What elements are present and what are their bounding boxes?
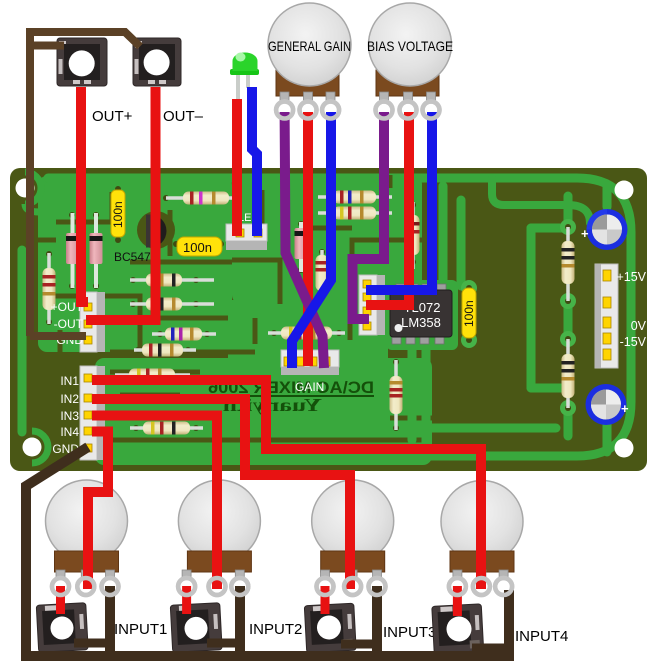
capacitor C2 100n horizontal — [177, 237, 222, 256]
electrolytic capacitor C4 blue top — [581, 209, 628, 250]
svg-text:OUT–: OUT– — [163, 108, 204, 125]
copper patch mid-top — [232, 175, 422, 304]
svg-text:INPUT4: INPUT4 — [515, 628, 568, 645]
wire brown inner to OUT+ — [33, 42, 64, 50]
wire red LED anode — [232, 99, 242, 236]
wire trace inner top right — [492, 178, 590, 223]
connector J-IN (IN1..IN4,GND) — [80, 366, 105, 460]
wire trace cap C4 stub up — [603, 186, 612, 207]
wire red IN4 to pot input1 — [88, 432, 108, 590]
resistor R9 under IN1 — [115, 369, 190, 382]
mounting hole top-left — [16, 179, 35, 198]
wire trace IC pin down 1 — [408, 346, 417, 440]
PCB board — [10, 168, 647, 471]
diode D1 pink — [66, 213, 79, 288]
wire trace power loop vertical — [527, 228, 536, 388]
wire red pot VR1 wiper to GAIN — [303, 112, 313, 366]
jack INPUT2 J4 — [170, 603, 222, 653]
wire blue pot VR1 right to GAIN pin1 — [292, 112, 331, 368]
pad hole dots on patches — [46, 186, 416, 431]
resistor R10 under IN4 — [130, 422, 203, 435]
silk mirrored signature — [223, 395, 322, 415]
wire purple pot VR1 left to GAIN pin4 — [285, 112, 324, 368]
svg-text:IN4: IN4 — [60, 425, 79, 439]
svg-text:-15V: -15V — [620, 335, 647, 349]
groove lines on mid-top patch — [232, 175, 422, 304]
svg-text:BIAS VOLTAGE: BIAS VOLTAGE — [367, 38, 453, 54]
mounting hole top-right — [615, 181, 634, 200]
potentiometer VR2 BIAS VOLTAGE — [369, 3, 452, 119]
wire blue LED cathode — [252, 87, 257, 236]
mounting hole bottom-left — [23, 438, 42, 457]
copper patch gain riser — [228, 300, 388, 370]
resistor R1 — [130, 274, 214, 287]
resistor R7 — [318, 207, 392, 220]
resistor R8 gain — [268, 327, 345, 340]
wire brown jack2 stub — [207, 639, 240, 648]
wire trace second bottom — [112, 424, 556, 433]
svg-text:100n: 100n — [183, 240, 212, 255]
resistor R12 vertical mid — [407, 202, 420, 269]
wire red pot2 left ring to jack2 — [182, 586, 191, 614]
wire trace IC pin down 2 — [422, 346, 431, 457]
connector J-PWR — [595, 264, 618, 368]
copper patch mid-bottom — [95, 358, 432, 465]
wire trace power loop horiz bottom — [531, 384, 568, 393]
dark blob under transistor — [137, 211, 175, 249]
wire red pot1 left ring to jack1 — [56, 586, 65, 614]
wire trace cap3 stub — [457, 200, 466, 286]
resistor R6 — [318, 191, 392, 204]
wire trace R11-R12 link — [564, 300, 573, 340]
resistor R16 vertical center — [316, 250, 329, 298]
jack INPUT4 J6 — [432, 604, 484, 654]
jack INPUT3 J5 — [304, 603, 356, 653]
wire trace arc around bottom-left hole — [32, 431, 48, 463]
wire trace cap C5 stub down — [603, 424, 612, 452]
potentiometer VR3 input1 — [46, 480, 128, 595]
ring re-strokes — [52, 102, 512, 596]
wire red IN1 to pot input4 — [92, 380, 481, 589]
resistor R2 — [130, 298, 214, 311]
svg-text:+: + — [621, 401, 629, 416]
copper patch left — [38, 176, 232, 352]
svg-text:BC547: BC547 — [114, 250, 151, 264]
wire red IN2 to pot input3 — [92, 399, 350, 589]
wire brown jack3 stub — [341, 640, 377, 649]
electrolytic capacitor C5 blue bottom — [586, 384, 630, 425]
svg-text:IN2: IN2 — [60, 392, 79, 406]
copper pad field under IC — [386, 280, 458, 350]
wire trace arc around top-left hole — [25, 172, 41, 204]
wire red pot4 left ring to jack4 — [453, 586, 462, 616]
svg-text:-OUT: -OUT — [54, 317, 84, 331]
resistor R4 — [134, 344, 196, 357]
wire trace R12 down — [564, 406, 573, 436]
wire red pot VR2 wiper to IC conn — [366, 112, 409, 305]
capacitor C3 100n vertical right — [462, 288, 476, 338]
connector J-IC (4 pin) — [359, 275, 385, 335]
wire trace power loop horiz top — [531, 224, 568, 233]
potentiometer VR4 input2 — [178, 480, 260, 595]
svg-text:100n: 100n — [111, 201, 125, 228]
svg-text:+15V: +15V — [616, 270, 646, 284]
wire brown jack4 stub — [472, 644, 509, 653]
jack OUT- J2 — [133, 38, 181, 86]
wire red pot3 left ring to jack3 — [321, 586, 330, 614]
wire brown pot3 right ring down — [372, 586, 382, 656]
resistor R3 — [152, 328, 216, 341]
groove lines on left patch — [38, 192, 232, 352]
wire brown jack1 stub — [74, 639, 110, 648]
transistor Q1 BC547 — [134, 215, 167, 248]
jack OUT+ J1 — [57, 38, 107, 86]
svg-text:100n: 100n — [462, 300, 476, 327]
svg-text:OUT+: OUT+ — [92, 108, 133, 125]
IC U1 TL072/LM358 — [390, 284, 452, 344]
resistor R11 vertical left — [43, 253, 56, 324]
svg-text:IN1: IN1 — [60, 374, 79, 388]
potentiometer VR5 input3 — [312, 480, 394, 595]
svg-text:INPUT2: INPUT2 — [249, 621, 302, 638]
connector J-OUT (+OUT/-OUT/GND) — [80, 292, 105, 352]
mounting hole bottom-right — [615, 439, 634, 458]
wire blue pot VR2 right to IC conn — [366, 112, 432, 290]
resistor R14 vertical right top — [562, 227, 575, 301]
wire brown pot1 right ring down — [105, 586, 115, 656]
connector J-GAIN — [281, 350, 339, 375]
resistor R15 vertical right bottom — [562, 339, 575, 408]
connector J-LED — [226, 224, 267, 250]
wire trace top bus — [48, 178, 631, 456]
groove lines on bottom patch — [108, 304, 432, 440]
wire purple pot VR2 left to IC conn — [353, 112, 385, 319]
silk mirrored title DC/AC MIXER 2006 — [208, 378, 374, 397]
wire red OUT+ jack to +OUT — [81, 87, 88, 302]
wire trace bottom-left hole stub — [18, 250, 27, 432]
wire brown ground bus bottom — [26, 447, 509, 656]
svg-text:INPUT1: INPUT1 — [114, 621, 167, 638]
svg-text:IN3: IN3 — [60, 409, 79, 423]
wire red IN3 to pot input2 — [92, 416, 217, 590]
pads right area — [461, 219, 576, 416]
silk title underline — [208, 395, 374, 397]
svg-text:0V: 0V — [631, 319, 647, 333]
svg-text:GENERAL GAIN: GENERAL GAIN — [268, 38, 351, 54]
wire trace R11 up — [564, 196, 573, 225]
capacitor C1 100n vertical — [111, 190, 125, 237]
resistor R5 top-left — [166, 192, 236, 205]
resistor R13 vertical below IC — [390, 360, 403, 430]
wire red OUT- jack to -OUT — [86, 87, 156, 320]
diode D3 pink center — [295, 222, 308, 272]
potentiometer VR1 GENERAL GAIN — [268, 3, 351, 119]
svg-text:INPUT3: INPUT3 — [383, 624, 436, 641]
diode D2 pink — [90, 213, 103, 288]
wire brown pot2 right ring down — [235, 586, 245, 656]
jack INPUT1 J3 — [36, 603, 88, 653]
wire brown GND stub into connector — [30, 332, 86, 340]
svg-text:+: + — [581, 226, 589, 241]
potentiometer VR6 input4 — [441, 481, 523, 596]
svg-text:LM358: LM358 — [401, 315, 441, 330]
wire trace IC top right — [439, 186, 448, 282]
wire brown outer to OUT- — [30, 32, 140, 336]
LED D4 — [230, 53, 259, 102]
svg-text:GAIN: GAIN — [295, 380, 324, 394]
